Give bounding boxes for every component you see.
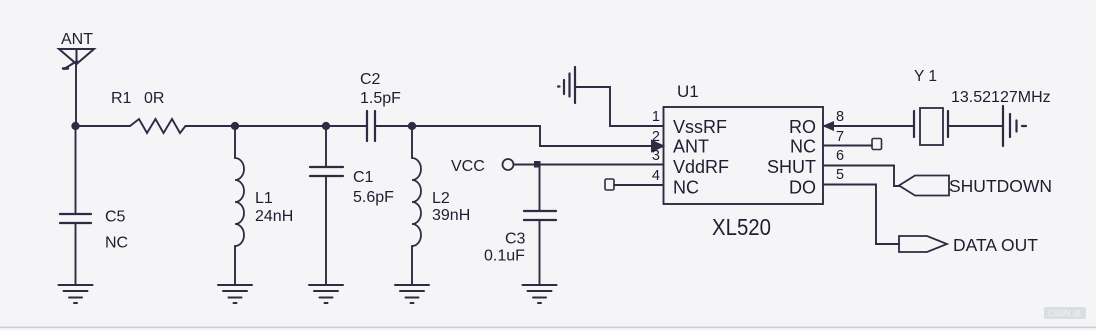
ground (L1) xyxy=(218,285,252,303)
svg-text:DATA OUT: DATA OUT xyxy=(953,235,1038,255)
svg-text:L1: L1 xyxy=(255,190,273,207)
resistor R1 0R xyxy=(111,90,186,133)
wire node A to resistor R1 xyxy=(76,125,131,127)
wire antenna to node A xyxy=(75,64,77,126)
wire U1 pin 6 (SHUT) to SHUTDOWN port xyxy=(823,166,899,187)
svg-text:ANT: ANT xyxy=(673,137,709,157)
svg-text:C3: C3 xyxy=(505,231,526,248)
inductor L2 39nH xyxy=(412,126,470,285)
svg-text:XL520: XL520 xyxy=(712,214,771,240)
ground (C3) xyxy=(523,285,557,303)
svg-text:ANT: ANT xyxy=(61,31,93,48)
wire resistor to node B xyxy=(186,125,236,127)
op IC U1 XL520 box xyxy=(664,82,824,240)
svg-text:C2: C2 xyxy=(360,71,381,88)
ground (C1) xyxy=(309,285,343,303)
port DATA OUT xyxy=(899,235,1038,255)
inductor L1 24nH xyxy=(235,126,293,285)
wire C2 to node D xyxy=(375,125,412,127)
svg-text:RO: RO xyxy=(789,117,816,137)
pin 7 stub square xyxy=(872,139,882,150)
svg-text:8: 8 xyxy=(836,109,844,125)
svg-text:DO: DO xyxy=(789,178,816,198)
VCC supply xyxy=(451,158,536,175)
svg-text:0R: 0R xyxy=(144,90,164,107)
svg-text:3: 3 xyxy=(652,148,660,164)
ground (sideways, crystal) xyxy=(1003,106,1026,146)
antenna ANT xyxy=(59,31,94,69)
wire node D to U1 pin 2 (ANT) xyxy=(412,126,652,146)
capacitor C5 NC (shunt at node A) xyxy=(60,126,128,285)
wire U1 pin 7 (NC) to stub square xyxy=(823,145,872,147)
svg-text:1: 1 xyxy=(652,109,660,125)
svg-text:C1: C1 xyxy=(353,169,374,186)
wire node E to U1 pin 3 (VddRF) xyxy=(540,164,663,166)
capacitor C1 5.6pF (shunt at node C) xyxy=(310,126,394,285)
ground (C5) xyxy=(59,285,93,303)
svg-text:SHUT: SHUT xyxy=(767,157,816,177)
wire node C to capacitor C2 xyxy=(326,125,367,127)
svg-text:NC: NC xyxy=(673,178,699,198)
svg-text:24nH: 24nH xyxy=(255,208,293,225)
svg-text:39nH: 39nH xyxy=(432,207,470,224)
ground (sideways, U1 pin 1) xyxy=(558,67,575,103)
capacitor C2 1.5pF (series) xyxy=(360,71,401,141)
node B junction dot xyxy=(232,123,238,129)
svg-text:4: 4 xyxy=(652,168,660,184)
wire node B to node C xyxy=(235,125,326,127)
svg-text:7: 7 xyxy=(836,129,844,145)
port SHUTDOWN xyxy=(899,176,1052,197)
svg-text:5: 5 xyxy=(836,167,844,183)
svg-text:CSDN @: CSDN @ xyxy=(1048,309,1081,318)
pin 2 arrowhead into U1 xyxy=(652,140,665,152)
svg-text:C5: C5 xyxy=(105,209,126,226)
svg-text:U1: U1 xyxy=(677,82,699,101)
pin 8 arrowhead into U1 (RO) xyxy=(824,122,834,131)
svg-text:NC: NC xyxy=(105,235,128,252)
svg-text:13.52127MHz: 13.52127MHz xyxy=(951,89,1051,106)
svg-text:L2: L2 xyxy=(432,190,450,207)
svg-text:SHUTDOWN: SHUTDOWN xyxy=(949,176,1052,196)
ground (L2) xyxy=(395,285,429,303)
node E (VCC junction) xyxy=(534,161,541,168)
svg-text:VssRF: VssRF xyxy=(673,117,727,137)
node C junction dot xyxy=(323,123,329,129)
svg-text:1.5pF: 1.5pF xyxy=(360,90,401,107)
svg-text:VddRF: VddRF xyxy=(673,157,729,177)
svg-text:NC: NC xyxy=(790,137,816,157)
wire crystal to sideways ground xyxy=(948,125,1003,127)
wire pin 4 stub to U1 pin 4 (NC) xyxy=(614,184,663,186)
capacitor C3 0.1uF xyxy=(484,211,556,285)
pin 4 stub square xyxy=(605,179,614,190)
svg-text:R1: R1 xyxy=(111,90,132,107)
watermark xyxy=(1044,307,1086,319)
svg-text:0.1uF: 0.1uF xyxy=(484,248,525,265)
svg-text:VCC: VCC xyxy=(451,158,485,175)
wire sideways ground to U1 pin 1 (VssRF) xyxy=(575,87,663,126)
wire U1 pin 5 (DO) to DATA OUT port xyxy=(823,185,899,245)
wire node E down to capacitor C3 xyxy=(539,165,541,212)
svg-text:Y 1: Y 1 xyxy=(914,68,937,85)
svg-text:6: 6 xyxy=(836,148,844,164)
wire U1 pin 8 to crystal Y1 xyxy=(823,125,914,127)
crystal Y1 13.52127MHz xyxy=(914,68,1051,145)
node A junction dot xyxy=(72,123,78,129)
node D junction dot xyxy=(409,123,415,129)
svg-text:5.6pF: 5.6pF xyxy=(353,189,394,206)
